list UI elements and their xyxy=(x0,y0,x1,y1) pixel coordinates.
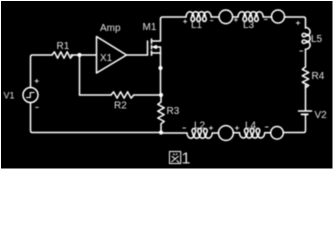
L4 minus xyxy=(265,126,269,128)
wire L4 to probe 4 xyxy=(233,132,239,134)
svg-text:L4: L4 xyxy=(245,121,257,132)
wire L1 to probe 1 xyxy=(211,16,219,18)
resistor R1 xyxy=(52,52,73,58)
wire probe 1 to L3 xyxy=(233,16,238,18)
L1 minus xyxy=(210,20,213,22)
resistor R3 xyxy=(158,95,164,133)
wire op-amp output to gate xyxy=(127,54,148,56)
wire probe 2 to top-right corner down to L5 xyxy=(285,17,306,28)
resistor R4 xyxy=(302,67,308,88)
svg-text:R2: R2 xyxy=(114,101,127,112)
wire probe 3 to L4 xyxy=(265,132,271,134)
V1 step waveform glyph xyxy=(27,93,35,98)
svg-text:R4: R4 xyxy=(312,71,325,82)
probe circle P3 xyxy=(271,127,284,140)
wire feedback vertical node A down to R2 rail xyxy=(79,55,81,95)
L2 plus xyxy=(209,126,213,130)
V1 minus xyxy=(35,106,38,108)
inductor L1 xyxy=(186,12,211,22)
wire L5 to R4 xyxy=(305,49,307,67)
op-amp U1 triangle xyxy=(97,37,127,74)
wire L3 to probe 2 xyxy=(263,16,271,18)
black canvas xyxy=(1,1,333,169)
svg-text:M1: M1 xyxy=(143,22,157,33)
node M1 source dot xyxy=(158,66,162,70)
wire R1 to op-amp input xyxy=(71,54,96,56)
node C dot (R3/bottom rail) xyxy=(159,130,163,134)
wire R4 to battery V2 xyxy=(305,85,307,111)
wire L2 to node C xyxy=(161,132,187,134)
page background xyxy=(0,0,336,173)
wire probe 4 to L2 xyxy=(212,132,218,134)
node B dot (R2/R3/source) xyxy=(159,93,163,97)
resistor R2 xyxy=(111,92,134,98)
svg-text:L5: L5 xyxy=(311,34,323,45)
probe circle P2 xyxy=(272,10,285,23)
inductor L3 xyxy=(238,12,263,22)
L4 plus xyxy=(235,126,239,130)
caption 図1 xyxy=(170,152,181,164)
drain lead xyxy=(152,19,161,41)
wire input rail left: V1 top to R1 xyxy=(31,55,53,88)
L1 plus xyxy=(183,20,187,24)
M1 body arrow xyxy=(152,45,157,49)
junction dots xyxy=(77,53,163,135)
L3 minus xyxy=(264,19,268,21)
wire to R2 xyxy=(80,94,112,96)
svg-text:L1: L1 xyxy=(191,20,203,31)
kanji 図 box xyxy=(170,152,181,164)
inductor L2 xyxy=(187,129,212,139)
probe circle P4 xyxy=(219,126,234,141)
svg-text:X1: X1 xyxy=(100,53,113,64)
polarity marks xyxy=(35,18,303,130)
V1 plus xyxy=(35,79,39,83)
wire battery to bottom corner to probe 3 xyxy=(283,114,305,132)
wire R2 to node B xyxy=(134,94,161,96)
svg-text:L3: L3 xyxy=(243,20,255,31)
bottom rail wire xyxy=(31,103,162,133)
wire top rail corner to L1 xyxy=(161,17,187,19)
svg-text:V1: V1 xyxy=(4,91,15,101)
L5 minus xyxy=(300,50,304,52)
source lead xyxy=(152,53,161,68)
wire M1 source down to node B xyxy=(160,68,162,95)
svg-text:L2: L2 xyxy=(194,121,206,132)
body line xyxy=(157,47,161,53)
L2 minus xyxy=(183,127,187,129)
transistor M1 xyxy=(148,19,161,68)
node A dot (R1/op-amp/feedback) xyxy=(77,53,81,57)
svg-text:R3: R3 xyxy=(167,106,180,117)
source V1 circle xyxy=(23,88,38,103)
gate bar xyxy=(147,41,149,55)
L5 plus xyxy=(296,21,300,25)
svg-text:1: 1 xyxy=(182,151,191,168)
svg-text:V2: V2 xyxy=(315,110,328,121)
inductor L5 xyxy=(302,28,310,50)
svg-text:R1: R1 xyxy=(57,41,70,52)
battery V2 plates xyxy=(299,110,312,112)
channel segments xyxy=(151,39,153,43)
inductor L4 xyxy=(240,128,265,138)
L3 plus xyxy=(234,18,238,22)
probe circle P1 xyxy=(219,10,233,24)
svg-text:Amp: Amp xyxy=(100,23,121,34)
